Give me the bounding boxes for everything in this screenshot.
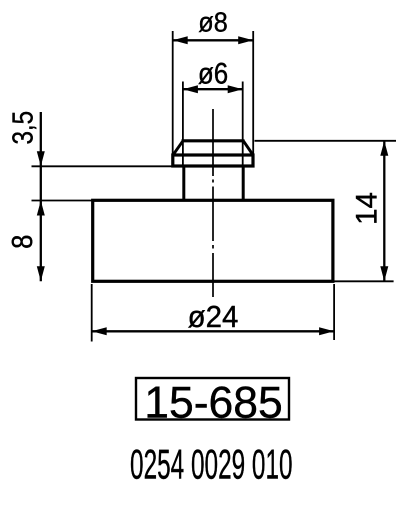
dimension 14: vertical dimension line [383,141,385,281]
svg-text:8: 8 [6,235,39,249]
neck left edge [182,167,185,201]
neck right edge [242,167,245,201]
svg-text:0254 0029 010: 0254 0029 010 [130,442,293,488]
dimension 3,5 / 8: vertical dimension line [40,112,42,281]
dimension 3,5: upper arrowhead (outside, pointing down) [37,151,45,166]
dimension o8: right arrowhead [238,36,253,44]
cap right chamfer [243,141,253,155]
dimension o24: extension lines [92,284,334,342]
svg-text:ø6: ø6 [198,57,228,90]
svg-text:14: 14 [351,192,384,225]
dimension 14: extension line (cap top, to the right) [255,140,397,142]
dimension o6: dimension line [183,88,243,90]
svg-text:15-685: 15-685 [144,379,283,428]
dimension o6: right arrowhead [228,85,243,93]
part number box [136,378,289,420]
dimension o24: dimension line [92,330,334,332]
cap top edge [182,139,245,142]
dimension o24: right arrowhead [319,327,334,335]
dimension o24: left arrowhead [92,327,107,335]
dimension 3,5: extension line (flange bottom, to the left) [32,165,173,167]
dimension o8: left arrowhead [173,36,188,44]
body outline (o24 disc) [93,200,333,281]
flange outline (o8 rim) [173,155,253,166]
cap left chamfer [173,141,183,155]
dimension 3,5 / 8: shared extension line (body top, to the left) [32,200,93,202]
dimension 14: extension line (body bottom, to the right) [334,280,394,282]
svg-text:ø8: ø8 [198,6,227,38]
dimension 8: lower arrowhead (pointing down) [37,266,45,281]
dimension o6: left arrowhead [183,85,198,93]
dimension 3,5 / 8: arrowhead at body top (pointing up) [37,201,45,216]
dimension 14: lower arrowhead (pointing down) [380,266,388,281]
dimension 14: upper arrowhead (pointing up) [380,141,388,156]
dimension o8: extension lines [173,31,254,154]
dimension o8: dimension line [173,39,254,41]
dimension o6: extension lines [183,82,243,166]
svg-text:3,5: 3,5 [6,111,38,145]
svg-text:ø24: ø24 [188,300,239,334]
centerline (vertical dash-dot axis) [212,109,214,297]
